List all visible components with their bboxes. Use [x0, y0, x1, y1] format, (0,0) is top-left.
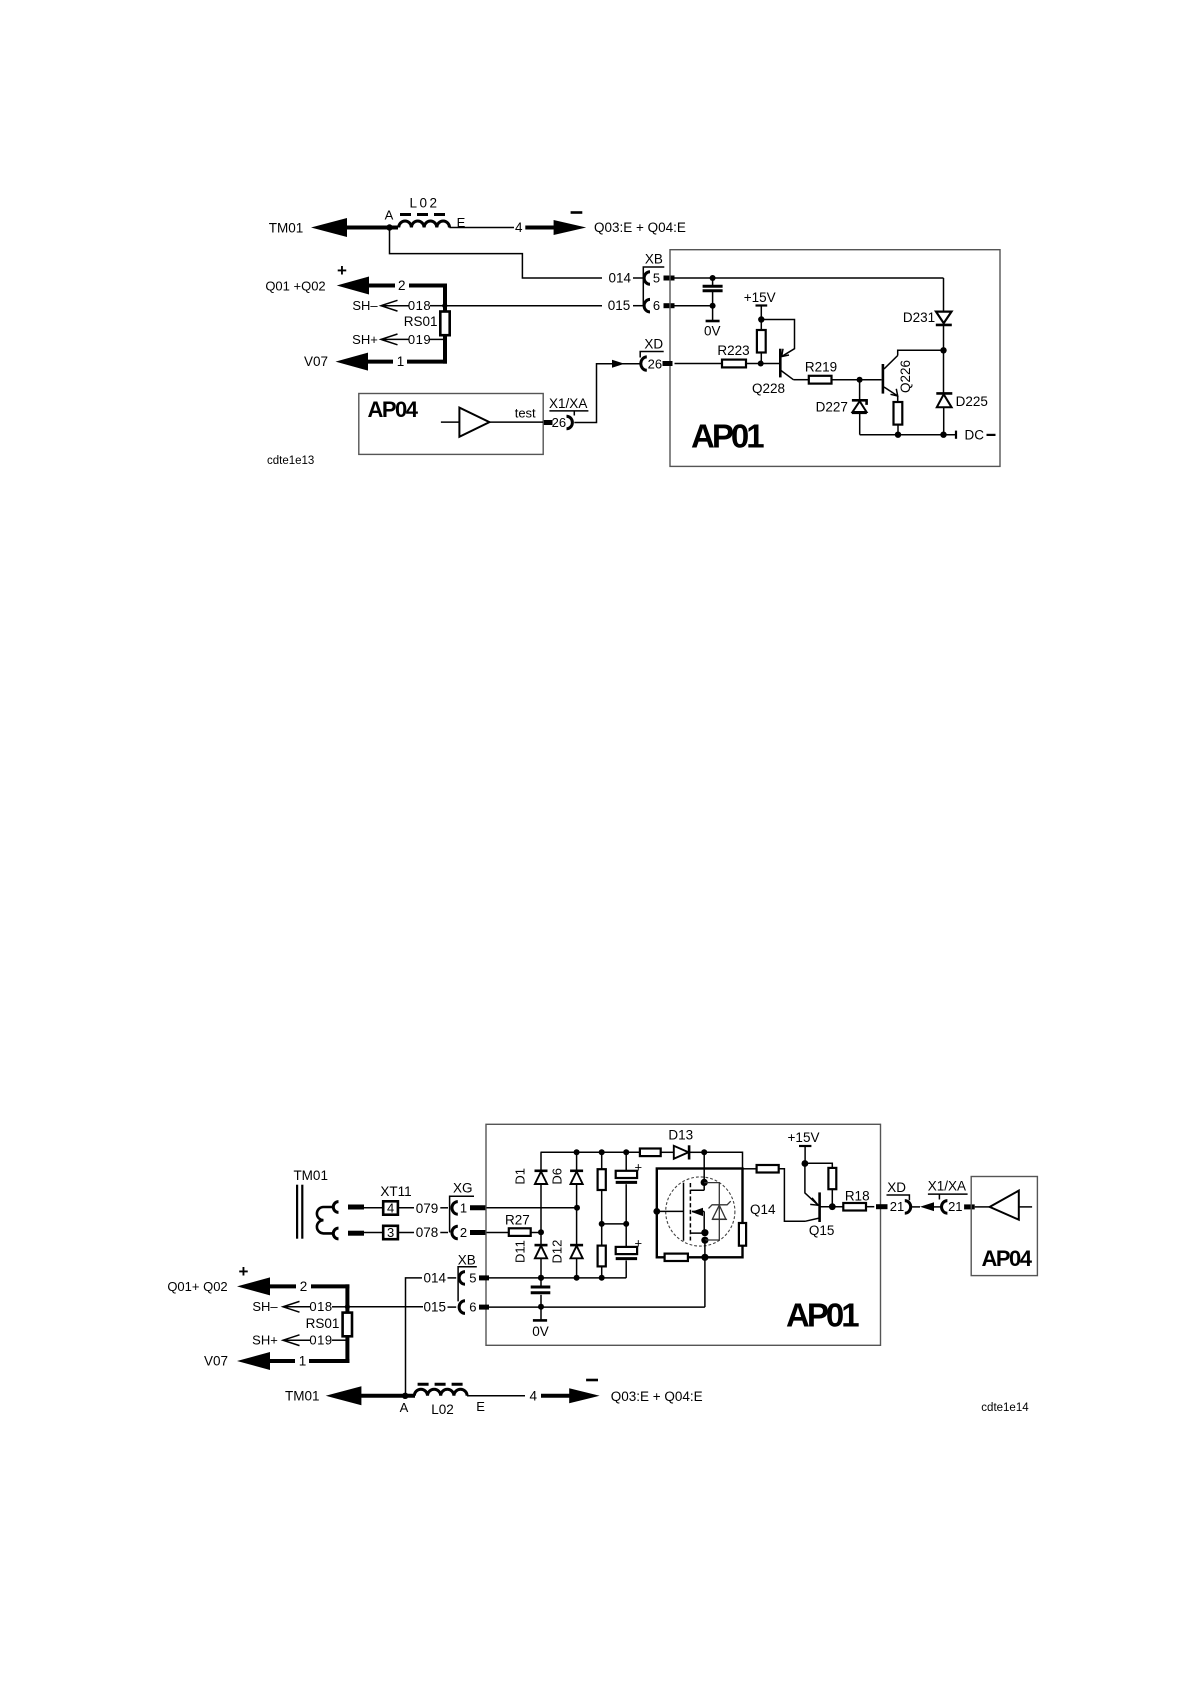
svg-text:018: 018 [408, 298, 431, 313]
svg-text:test: test [515, 406, 536, 421]
svg-text:cdte1e14: cdte1e14 [981, 1402, 1029, 1414]
svg-text:TM01: TM01 [269, 221, 304, 236]
resistor pull-up (Q15 base) [805, 1163, 836, 1210]
svg-text:AP01: AP01 [786, 1297, 859, 1334]
svg-text:DC: DC [965, 427, 985, 442]
resistor R27 [487, 1213, 545, 1236]
svg-text:078: 078 [416, 1225, 439, 1240]
svg-text:4: 4 [515, 220, 523, 235]
resistor source (bottom edge) [665, 1254, 688, 1261]
supply +15V (bottom) [788, 1130, 820, 1167]
resistor gate-source (right edge) [739, 1223, 746, 1246]
connector X1/XA label (top) [549, 396, 588, 416]
connector XB label (bottom) [458, 1253, 477, 1302]
resistor (gate series, top rail) [640, 1149, 674, 1157]
net 079 [416, 1201, 448, 1216]
connector XB label (top) [643, 252, 664, 307]
connector XD pin 26 (top) [641, 357, 673, 372]
svg-text:0V: 0V [704, 324, 721, 339]
diode D231 [903, 278, 952, 350]
connector XG pin 2 [452, 1225, 487, 1240]
terminal DC- [956, 427, 996, 442]
resistor R18 [820, 1189, 888, 1211]
resistor divider upper [598, 1152, 606, 1245]
svg-text:D6: D6 [550, 1168, 565, 1185]
node TM01 (top) [269, 221, 304, 236]
svg-text:1: 1 [460, 1200, 467, 1215]
svg-text:4: 4 [530, 1389, 538, 1404]
svg-text:X1/XA: X1/XA [549, 396, 587, 411]
resistor RS01 (bottom) [306, 1313, 352, 1337]
resistor RS01 (top) [404, 312, 450, 336]
label cdte1e13 [267, 455, 314, 467]
node Q03:E + Q04:E (top) [594, 220, 686, 235]
node TM01 (bottom rail) [285, 1389, 320, 1404]
wire RS01 vertical bus (top) [443, 284, 447, 364]
connector XD pin 21 (bottom) [890, 1199, 920, 1214]
svg-text:R18: R18 [845, 1189, 870, 1204]
pin 4 label (top) [515, 220, 523, 235]
wire XB6 to capacitor (top) [675, 303, 716, 309]
wire TM01 rail arrow (bottom) [326, 1386, 415, 1405]
svg-text:XT11: XT11 [380, 1184, 411, 1199]
plus sign (top) [337, 261, 347, 280]
pin 4 label (bottom) [530, 1389, 538, 1404]
wire D13 node to Q14 square [704, 1152, 742, 1168]
minus sign (bottom) [586, 1379, 598, 1382]
wire RS01 vertical bus (bottom) [345, 1284, 349, 1363]
svg-text:1: 1 [299, 1354, 307, 1369]
mosfet Q14 internals [684, 1152, 709, 1243]
wire divider to cap column [602, 1221, 630, 1227]
body zener inside Q14 [704, 1183, 731, 1240]
buffer amp (AP04, bottom) [975, 1191, 1032, 1220]
svg-text:0V: 0V [532, 1324, 549, 1339]
resistor (base pull-up Q228) (top) [757, 320, 766, 364]
svg-text:SH–: SH– [252, 1299, 278, 1314]
connector XB pin 5 / net 014 (top) [609, 270, 675, 285]
svg-text:A: A [385, 208, 394, 223]
wire source to XB6 row [541, 1257, 705, 1307]
wire XB6 rail (bottom) [489, 1304, 544, 1310]
svg-text:XD: XD [644, 337, 663, 352]
connector X1/XA pin 26 (top) [543, 415, 573, 430]
capacitor lower (polarized) [616, 1224, 642, 1278]
wire +15V to Q228 emitter [761, 320, 794, 357]
label cdte1e14 [981, 1402, 1029, 1414]
svg-text:D225: D225 [956, 394, 988, 409]
wire L02 to Q03 (top) [449, 227, 514, 229]
resistor (Q226 emitter) [894, 396, 903, 438]
svg-text:XB: XB [458, 1253, 476, 1268]
node Q01 +Q02 (top) [265, 279, 325, 294]
plus sign (bottom) [239, 1262, 249, 1281]
svg-text:21: 21 [890, 1199, 904, 1214]
svg-text:D1: D1 [513, 1168, 528, 1185]
svg-text:2: 2 [300, 1279, 308, 1294]
wire XG1 to D6 column [487, 1205, 581, 1211]
wire 018 to XB6 (bottom) [347, 1306, 423, 1308]
wire AP04 to XD26 with arrow [574, 360, 641, 423]
connector XB pin 6 / net 015 (top) [608, 298, 675, 313]
connector XG label [450, 1181, 474, 1233]
ground 0V (top) [704, 306, 721, 339]
connector XB pin 6 / net 015 (bottom) [424, 1300, 489, 1315]
svg-text:D227: D227 [816, 400, 848, 415]
connector XB pin 5 / net 014 (bottom) [424, 1270, 489, 1285]
svg-text:L02: L02 [431, 1402, 454, 1417]
transistor Q226 [883, 356, 913, 397]
wire 018 to XB:6 (top) [445, 305, 602, 307]
svg-text:+: + [337, 261, 347, 280]
svg-text:AP04: AP04 [368, 397, 419, 422]
svg-text:3: 3 [387, 1225, 394, 1240]
svg-text:D12: D12 [550, 1240, 565, 1264]
resistor gate drive (to Q15) [743, 1165, 806, 1221]
svg-text:26: 26 [648, 357, 662, 372]
node SH- 018 (bottom) [252, 1299, 350, 1314]
net 078 [416, 1225, 448, 1240]
svg-text:Q01 +Q02: Q01 +Q02 [265, 279, 325, 294]
wire L02 to Q03 (bottom) [467, 1395, 525, 1397]
connector XD label (bottom) [887, 1180, 910, 1200]
capacitor (XB5-XB6, bottom) [531, 1278, 551, 1307]
inductor L02 (top) [399, 196, 466, 231]
svg-text:014: 014 [424, 1270, 447, 1285]
svg-text:Q14: Q14 [750, 1202, 776, 1217]
svg-text:Q15: Q15 [809, 1223, 835, 1238]
svg-text:SH+: SH+ [352, 332, 378, 347]
diode D13 [668, 1128, 707, 1160]
terminal XT11 pin 3 [383, 1225, 414, 1240]
node A junction (top) [385, 208, 394, 231]
svg-text:X1/XA: X1/XA [928, 1179, 966, 1194]
module Q14 outline square [657, 1169, 776, 1258]
wire TM01 rail arrow (top) [311, 218, 398, 237]
svg-text:2: 2 [398, 278, 406, 293]
svg-text:015: 015 [608, 298, 631, 313]
wire Q226 collector to D231 node [898, 347, 947, 355]
wire arrow Q01+Q02 pin 2 (bottom) [237, 1277, 349, 1295]
svg-text:079: 079 [416, 1201, 439, 1216]
transistor Q15 [805, 1192, 834, 1237]
svg-text:D231: D231 [903, 310, 935, 325]
svg-text:R27: R27 [505, 1213, 530, 1228]
svg-text:+: + [239, 1262, 249, 1281]
block AP01 (bottom) [486, 1124, 881, 1345]
svg-text:R219: R219 [805, 359, 837, 374]
svg-text:26: 26 [552, 415, 566, 430]
diode D6 [550, 1152, 584, 1208]
svg-text:D11: D11 [513, 1240, 528, 1263]
svg-text:Q01+ Q02: Q01+ Q02 [167, 1279, 227, 1294]
diode D1 [513, 1152, 548, 1232]
node SH+ 019 (top) [352, 332, 445, 347]
svg-text:V07: V07 [304, 354, 328, 369]
resistor R223 [717, 343, 749, 367]
svg-text:2: 2 [460, 1225, 467, 1240]
svg-text:4: 4 [387, 1201, 394, 1216]
svg-text:XD: XD [887, 1180, 906, 1195]
svg-text:RS01: RS01 [306, 1316, 340, 1331]
diode D227 (zener) [816, 380, 867, 435]
diode D225 [936, 350, 988, 438]
svg-text:D13: D13 [668, 1128, 693, 1143]
svg-text:L02: L02 [409, 196, 439, 211]
supply +15V (top) [744, 290, 776, 323]
svg-text:V07: V07 [204, 1354, 228, 1369]
node A junction (bottom) [400, 1393, 409, 1415]
svg-text:Q03:E + Q04:E: Q03:E + Q04:E [594, 220, 686, 235]
block AP01 (top) [670, 250, 1000, 467]
svg-text:5: 5 [653, 270, 660, 285]
svg-text:AP04: AP04 [982, 1246, 1033, 1271]
node SH- 018 (top) [352, 298, 447, 313]
svg-text:018: 018 [309, 1299, 332, 1314]
connector X1/XA pin 21 (bottom) [942, 1199, 975, 1214]
svg-text:R223: R223 [717, 343, 749, 358]
diode D11 [513, 1232, 548, 1281]
wire TM01 to XT11:4 [348, 1205, 383, 1211]
wire bottom rail DC- (top) [860, 434, 956, 436]
wire +15V to Q15 emitter [805, 1164, 819, 1206]
wire XB5 rail (bottom) [489, 1275, 626, 1281]
svg-text:XB: XB [645, 252, 663, 267]
diode D12 [550, 1208, 584, 1281]
block AP04 (bottom) [971, 1177, 1037, 1276]
connector X1/XA label (bottom) [928, 1179, 968, 1200]
capacitor C (top) [703, 278, 723, 306]
wire Q228 collector to R219 to Q226 base [793, 377, 881, 383]
connector XD label (top) [640, 337, 664, 358]
svg-text:019: 019 [408, 332, 431, 347]
svg-text:AP01: AP01 [691, 418, 764, 455]
svg-text:Q03:E + Q04:E: Q03:E + Q04:E [611, 1389, 703, 1404]
svg-text:+15V: +15V [788, 1130, 820, 1145]
node SH+ 019 (bottom) [252, 1333, 347, 1348]
minus sign (top) [571, 211, 583, 214]
svg-text:5: 5 [469, 1270, 476, 1285]
svg-text:Q228: Q228 [752, 381, 785, 396]
wire XB5 rail (top) [675, 275, 944, 281]
resistor R219 [805, 359, 837, 383]
svg-text:21: 21 [948, 1199, 962, 1214]
wire 014 riser (bottom) [406, 1278, 423, 1396]
node V07 (bottom) [204, 1352, 349, 1370]
svg-text:E: E [476, 1399, 485, 1414]
svg-text:XG: XG [453, 1181, 473, 1196]
connector XG pin 1 [452, 1200, 487, 1215]
node Q03:E + Q04:E (bottom) [611, 1389, 703, 1404]
svg-text:Q226: Q226 [898, 360, 913, 393]
svg-text:+15V: +15V [744, 290, 776, 305]
wire top rail (bridge) [541, 1149, 640, 1155]
buffer amp (AP04, top) [441, 406, 543, 437]
node source junction [701, 1240, 708, 1261]
svg-text:TM01: TM01 [293, 1168, 328, 1183]
svg-text:SH+: SH+ [252, 1333, 278, 1348]
terminal XT11 pin 4 [383, 1201, 414, 1216]
wire TM01 to XT11:3 [348, 1230, 383, 1236]
node V07 (top) [304, 353, 447, 371]
resistor divider lower [598, 1246, 606, 1281]
svg-text:SH–: SH– [352, 298, 378, 313]
svg-text:6: 6 [653, 298, 660, 313]
terminal XT11 [380, 1184, 411, 1199]
wire arrow Q01+Q02 pin 2 (top) [337, 277, 447, 295]
transformer TM01 (bottom) [293, 1168, 338, 1239]
svg-text:RS01: RS01 [404, 314, 438, 329]
svg-text:015: 015 [424, 1300, 447, 1315]
wire arrow to Q03:E (top) [525, 220, 586, 235]
svg-text:cdte1e13: cdte1e13 [267, 455, 314, 467]
wire gate node [653, 1208, 683, 1215]
svg-text:TM01: TM01 [285, 1389, 320, 1404]
ground 0V (bottom) [532, 1307, 549, 1339]
transistor Q228 [752, 349, 793, 396]
svg-text:1: 1 [397, 354, 405, 369]
wire arrow to Q03:E (bottom) [541, 1388, 600, 1403]
svg-text:019: 019 [309, 1333, 332, 1348]
svg-text:6: 6 [469, 1300, 476, 1315]
node Q01+Q02 (bottom) [167, 1279, 227, 1294]
inductor L02 (bottom) [414, 1384, 485, 1417]
block AP04 (top) [359, 394, 543, 455]
wire A to XB:5 (top) [390, 228, 603, 279]
svg-text:014: 014 [609, 271, 632, 286]
svg-text:A: A [400, 1400, 409, 1415]
capacitor upper (polarized) [616, 1152, 642, 1224]
wire arrow X1/XA to XD (bottom) [920, 1202, 941, 1211]
wire XD26 to R223 to Q228 base [675, 361, 780, 367]
